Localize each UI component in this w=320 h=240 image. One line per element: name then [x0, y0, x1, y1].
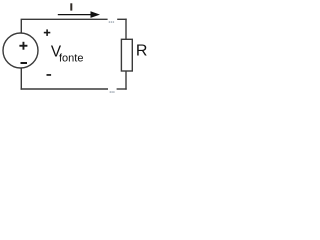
- voltage source V1 circle: [3, 33, 38, 68]
- polarity minus label (outside): [47, 74, 52, 76]
- svg-text:R: R: [136, 42, 148, 59]
- ellipsis dots on top wire gap: [109, 21, 115, 23]
- wire top horizontal right segment: [117, 18, 127, 20]
- wire bottom horizontal left segment: [21, 88, 108, 90]
- label I (current): [70, 3, 72, 10]
- current arrow I: [58, 11, 100, 18]
- wire top horizontal left segment: [21, 18, 108, 20]
- resistor R body: [121, 39, 132, 71]
- voltage source plus sign (inside): [19, 42, 27, 50]
- ellipsis dots on bottom wire gap: [110, 91, 115, 93]
- svg-text:fonte: fonte: [59, 52, 83, 64]
- voltage source minus sign (inside): [21, 62, 28, 64]
- wire right lower vertical (from resistor bottom): [125, 71, 127, 90]
- wire top-left vertical stub: [20, 19, 22, 33]
- wire bottom horizontal right segment: [117, 88, 127, 90]
- wire right upper vertical (to resistor top): [125, 19, 127, 40]
- wire bottom-left vertical stub: [20, 68, 22, 90]
- polarity plus label (outside): [44, 29, 51, 36]
